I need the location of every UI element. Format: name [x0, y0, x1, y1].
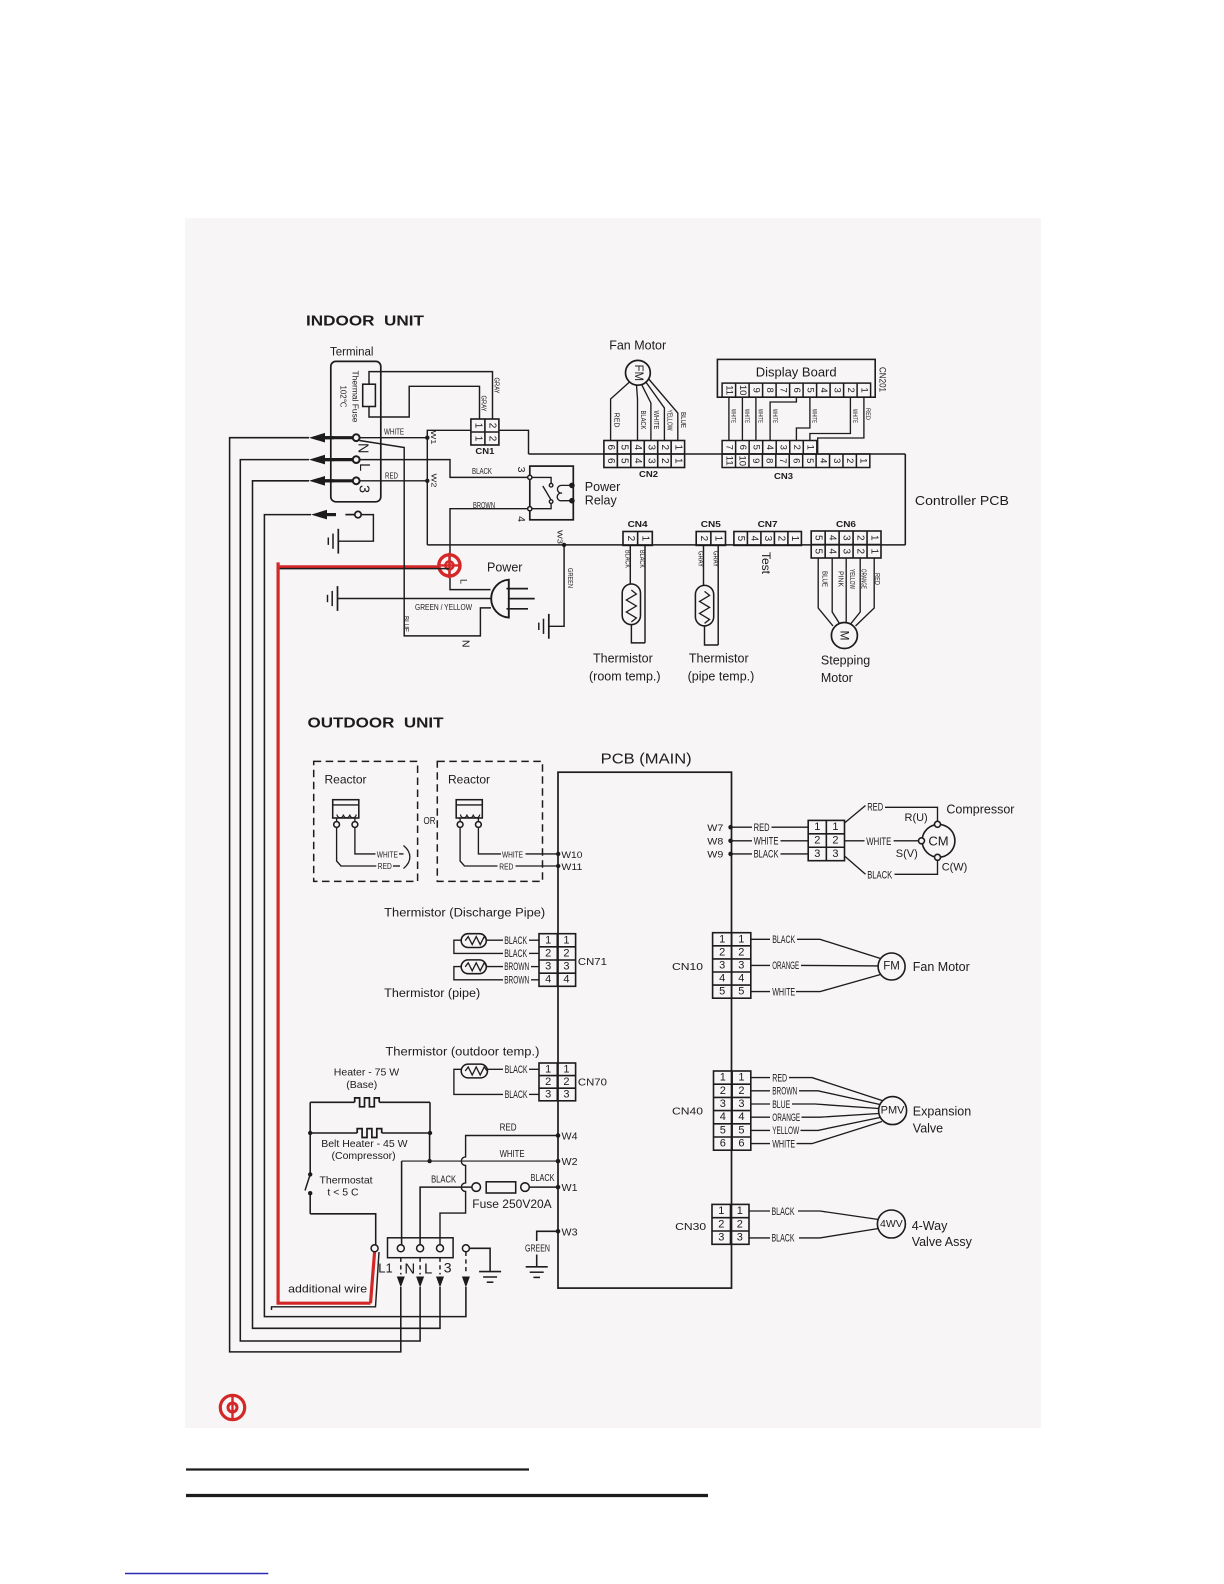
main bus (upper): [529, 453, 906, 455]
svg-text:2: 2: [855, 548, 866, 554]
arrow down (3 lead): [436, 1277, 444, 1288]
svg-text:additional wire: additional wire: [288, 1284, 367, 1296]
wire BLACK TH5 return to CN70-3: [454, 1069, 503, 1094]
svg-text:W10: W10: [561, 850, 582, 861]
svg-text:GREEN / YELLOW: GREEN / YELLOW: [415, 603, 472, 612]
svg-text:1: 1: [737, 1205, 743, 1217]
wire BLUE CN40-3 to expansion valve: [751, 1103, 770, 1105]
svg-text:CN5: CN5: [701, 520, 722, 529]
red additional wire (indoor to outdoor L1): [278, 562, 370, 1303]
thermistor TH1 (room temp.): [622, 584, 640, 625]
svg-text:2: 2: [791, 445, 802, 450]
svg-text:5: 5: [804, 458, 815, 463]
svg-text:4: 4: [738, 1111, 744, 1123]
svg-text:WHITE: WHITE: [771, 409, 777, 423]
wire BLACK outdoor terminal L to fuse: [420, 1187, 472, 1245]
wire display 11 to CN3-7: [728, 397, 730, 440]
svg-text:BLACK: BLACK: [754, 849, 779, 861]
heater left wire: [309, 1102, 311, 1174]
svg-text:WHITE: WHITE: [730, 409, 736, 423]
svg-text:2: 2: [659, 458, 670, 464]
svg-text:WHITE: WHITE: [757, 409, 763, 423]
svg-text:4: 4: [632, 458, 643, 464]
svg-text:GRAY: GRAY: [480, 396, 489, 412]
plug prong upper: [507, 588, 529, 590]
wire display 9 to CN3-5: [755, 397, 757, 440]
svg-text:2: 2: [776, 536, 787, 542]
svg-text:FM: FM: [883, 961, 900, 973]
svg-text:Thermostat: Thermostat: [320, 1174, 373, 1186]
svg-text:CN201: CN201: [878, 367, 888, 392]
svg-text:CN40: CN40: [672, 1105, 703, 1117]
svg-text:10: 10: [737, 455, 748, 466]
svg-text:S(V): S(V): [896, 848, 918, 860]
svg-text:Controller PCB: Controller PCB: [915, 493, 1009, 508]
svg-text:Valve Assy: Valve Assy: [912, 1235, 973, 1249]
svg-text:BLUE: BLUE: [772, 1099, 790, 1111]
svg-text:4: 4: [515, 516, 527, 522]
wire WHITE pin N to node W1: [359, 437, 427, 439]
wire gray loop lower (fuse bottom to CN1 pin1): [369, 386, 480, 419]
svg-text:BLACK: BLACK: [504, 935, 527, 947]
svg-text:5: 5: [813, 548, 824, 554]
svg-text:3: 3: [738, 1098, 744, 1110]
svg-text:BLACK: BLACK: [505, 1089, 528, 1101]
svg-text:5: 5: [619, 458, 630, 464]
svg-text:R(U): R(U): [905, 812, 928, 824]
svg-text:N: N: [404, 1260, 415, 1277]
svg-text:3: 3: [841, 535, 852, 541]
svg-text:BLUE: BLUE: [402, 616, 411, 632]
svg-text:L: L: [424, 1260, 432, 1277]
arrow down (N lead): [397, 1277, 405, 1288]
svg-text:GREEN: GREEN: [525, 1243, 550, 1254]
interconnect wire ground (indoor to outdoor): [264, 515, 466, 1317]
svg-text:BLACK: BLACK: [772, 1206, 795, 1218]
svg-text:CN71: CN71: [578, 956, 607, 968]
svg-text:Thermistor (Discharge Pipe): Thermistor (Discharge Pipe): [384, 908, 545, 920]
svg-text:ORANGE: ORANGE: [859, 569, 866, 589]
svg-text:11: 11: [723, 385, 734, 395]
svg-text:2: 2: [659, 444, 670, 450]
svg-text:3: 3: [563, 1089, 569, 1101]
wire ORANGE CN40-4 to expansion valve: [751, 1116, 770, 1118]
dashed lead below pin 3: [439, 1258, 441, 1275]
svg-text:1: 1: [738, 933, 744, 945]
svg-text:BLACK: BLACK: [772, 934, 795, 946]
svg-text:2: 2: [563, 947, 569, 959]
svg-text:1: 1: [858, 388, 869, 393]
wire PINK CN6-4 to stepping motor: [832, 558, 839, 624]
compressor motor CM: [922, 824, 955, 857]
dashed lead below pin N: [400, 1258, 402, 1275]
svg-text:ORANGE: ORANGE: [772, 960, 799, 972]
svg-text:YELLOW: YELLOW: [772, 1125, 799, 1137]
thermal fuse body: [363, 384, 376, 406]
svg-text:2: 2: [486, 436, 497, 442]
wire WHITE CN40-6 to expansion valve: [751, 1143, 770, 1145]
svg-text:2: 2: [855, 535, 866, 541]
svg-text:BLACK: BLACK: [639, 411, 648, 430]
svg-text:GRAY: GRAY: [711, 551, 718, 567]
outdoor terminal pin N: [397, 1245, 404, 1252]
diagram background: [185, 218, 1041, 1428]
svg-text:8: 8: [764, 458, 775, 463]
svg-text:BLUE: BLUE: [679, 412, 688, 428]
svg-text:1: 1: [672, 458, 683, 464]
svg-text:W1: W1: [562, 1183, 578, 1194]
node W4: [556, 1133, 561, 1138]
svg-text:Thermistor: Thermistor: [689, 652, 749, 666]
svg-text:7: 7: [723, 445, 734, 450]
svg-text:5: 5: [750, 445, 761, 450]
svg-text:BLACK: BLACK: [531, 1173, 555, 1184]
svg-text:3: 3: [831, 458, 842, 463]
connector CN3 top row: [722, 441, 817, 455]
svg-text:PMV: PMV: [881, 1105, 906, 1117]
arrow into interconnect wire N: [309, 433, 325, 443]
svg-text:(Base): (Base): [346, 1079, 377, 1091]
wire node W1 up into CN1 pin1: [427, 430, 471, 437]
svg-text:L1: L1: [378, 1260, 392, 1275]
separator line thick: [186, 1494, 708, 1497]
wire CN5-2 to pipe thermistor: [703, 545, 705, 585]
wire RED connector to compressor R(U): [845, 806, 866, 824]
svg-text:4: 4: [632, 444, 643, 450]
wire BLACK TH5 to CN70-1: [488, 1068, 504, 1070]
svg-text:5: 5: [804, 388, 815, 393]
red target mark (power tap): [448, 553, 450, 578]
svg-text:4: 4: [720, 1111, 726, 1123]
svg-text:Heater - 75 W: Heater - 75 W: [334, 1067, 399, 1079]
arrow down (L lead): [416, 1277, 424, 1288]
svg-text:1: 1: [720, 1072, 726, 1084]
svg-text:WHITE: WHITE: [377, 850, 398, 859]
svg-text:4-Way: 4-Way: [912, 1219, 948, 1233]
svg-text:WHITE: WHITE: [851, 409, 857, 423]
svg-text:2: 2: [625, 536, 636, 542]
display board pin row: [722, 383, 871, 397]
terminal pin L (indoor): [324, 458, 353, 461]
wire BLACK connector to compressor C(W): [845, 856, 866, 874]
reactor 1 wire RED: [337, 827, 377, 866]
svg-text:5: 5: [738, 1124, 744, 1136]
svg-text:1: 1: [719, 933, 725, 945]
wire BLACK CN10-1 to fan motor: [751, 938, 770, 940]
wire CN5-1 to pipe thermistor return: [717, 545, 719, 645]
reactor 2 dashed box: [437, 761, 542, 881]
svg-text:Thermistor (outdoor temp.): Thermistor (outdoor temp.): [385, 1047, 539, 1059]
wire gray loop upper (fuse top to CN1 pin2): [369, 372, 493, 419]
svg-text:2: 2: [718, 1218, 724, 1230]
svg-text:2: 2: [720, 1085, 726, 1097]
4-way valve coil 4WV: [877, 1210, 905, 1238]
controller PCB right edge wire: [904, 454, 906, 545]
svg-text:3: 3: [545, 961, 551, 973]
terminal ground pin (indoor): [345, 514, 354, 516]
connector CN10: [713, 933, 751, 999]
svg-text:3: 3: [718, 1232, 724, 1244]
connector CN30: [712, 1204, 749, 1244]
svg-text:Test: Test: [759, 552, 773, 575]
svg-text:1: 1: [789, 536, 800, 542]
outdoor terminal pin L: [417, 1245, 424, 1252]
svg-text:11: 11: [723, 456, 734, 466]
outdoor terminal block: [388, 1238, 454, 1258]
wire WHITE CN10-5 to fan motor: [751, 991, 770, 993]
svg-text:L: L: [459, 579, 469, 584]
svg-text:WHITE: WHITE: [743, 409, 749, 423]
svg-text:BROWN: BROWN: [504, 974, 529, 986]
plug prong lower: [507, 608, 529, 610]
svg-text:Expansion: Expansion: [913, 1104, 971, 1118]
svg-text:PINK: PINK: [836, 571, 843, 587]
svg-text:1: 1: [718, 1205, 724, 1217]
svg-text:4: 4: [749, 536, 760, 542]
wire BROWN CN40-2 to expansion valve: [751, 1090, 770, 1092]
display board: [717, 359, 875, 397]
svg-text:RED: RED: [873, 573, 880, 585]
svg-text:Fan Motor: Fan Motor: [913, 960, 970, 974]
main bus (lower): [427, 544, 905, 546]
svg-text:CN6: CN6: [836, 520, 857, 529]
wire BLUE fan motor to CN2-1: [648, 379, 678, 441]
svg-text:Stepping: Stepping: [821, 654, 870, 668]
wire BROWN TH4 return to CN71-4: [454, 967, 503, 980]
wire BLACK CN30-3 to 4-way valve: [749, 1237, 770, 1239]
svg-text:6: 6: [790, 458, 801, 463]
svg-text:1: 1: [639, 536, 650, 542]
node W1: [425, 436, 429, 440]
svg-text:6: 6: [791, 388, 802, 393]
svg-text:Compressor: Compressor: [946, 803, 1014, 817]
reactor 2 component: [456, 800, 482, 818]
arrow into interconnect wire L: [309, 455, 325, 465]
svg-text:YELLOW: YELLOW: [666, 410, 675, 432]
wire ORANGE CN10-3 to fan motor: [751, 964, 770, 966]
svg-text:5: 5: [719, 986, 725, 998]
svg-text:2: 2: [844, 458, 855, 463]
svg-text:W2: W2: [562, 1157, 578, 1168]
svg-text:OUTDOOR UNIT: OUTDOOR UNIT: [308, 715, 444, 732]
svg-text:4: 4: [719, 973, 725, 985]
wire GREEN W3 to ground: [549, 545, 564, 626]
svg-text:M: M: [837, 631, 851, 641]
wire W1-W2-bus vertical: [426, 438, 428, 545]
svg-text:YELLOW: YELLOW: [848, 569, 855, 589]
svg-text:2: 2: [738, 946, 744, 958]
svg-text:(pipe temp.): (pipe temp.): [688, 670, 755, 684]
svg-text:W2: W2: [430, 474, 439, 488]
svg-text:WHITE: WHITE: [772, 1138, 795, 1150]
ground (outdoor terminal earth): [479, 1271, 501, 1273]
wire WHITE connector to compressor S(V): [845, 840, 865, 842]
svg-text:CN2: CN2: [639, 470, 659, 479]
wire BLUE CN6-5 to stepping motor: [818, 558, 833, 626]
svg-text:RED: RED: [499, 863, 513, 872]
wire YELLOW CN40-5 to expansion valve: [751, 1129, 770, 1131]
wire display 2 to CN3-1: [810, 397, 851, 440]
svg-text:3: 3: [645, 458, 656, 464]
wire YELLOW CN6-3 to stepping motor: [845, 558, 847, 622]
svg-text:CN70: CN70: [578, 1076, 607, 1088]
wire RED fan motor to CN2-6: [611, 382, 630, 441]
svg-text:C(W): C(W): [942, 861, 968, 873]
thermistor TH5 (outdoor temp.): [461, 1064, 487, 1078]
svg-text:Fan Motor: Fan Motor: [609, 339, 666, 353]
svg-text:1: 1: [869, 548, 880, 554]
wire ORANGE CN6-2 to stepping motor: [851, 558, 860, 624]
node W3 (outdoor): [556, 1229, 561, 1234]
svg-text:RED: RED: [613, 413, 622, 429]
svg-text:10: 10: [737, 385, 748, 396]
svg-text:WHITE: WHITE: [652, 411, 661, 430]
svg-text:6: 6: [605, 458, 616, 464]
wire terminal ground pin to earth: [338, 515, 373, 542]
expansion valve PMV: [879, 1097, 907, 1125]
connector CN40: [714, 1071, 751, 1150]
svg-text:7: 7: [777, 388, 788, 393]
svg-text:Power: Power: [487, 561, 522, 575]
wire RED W4 to outdoor terminal 3: [440, 1136, 558, 1245]
wire WHITE fan motor to CN2-3: [642, 384, 651, 440]
wire CN4-1 to room thermistor return: [644, 545, 646, 643]
svg-text:GRAY: GRAY: [493, 378, 502, 394]
svg-text:BLACK: BLACK: [505, 1064, 528, 1076]
svg-text:WHITE: WHITE: [772, 986, 795, 998]
svg-text:W3: W3: [555, 530, 564, 544]
connector CN2: [604, 441, 685, 468]
svg-text:4: 4: [738, 973, 744, 985]
connector CN1: [471, 419, 499, 445]
svg-text:RED: RED: [772, 1072, 787, 1084]
outdoor ground pin: [462, 1245, 469, 1252]
dashed lead below pin L: [419, 1258, 421, 1275]
svg-text:1: 1: [814, 821, 820, 833]
svg-text:Fuse 250V20A: Fuse 250V20A: [472, 1197, 551, 1211]
svg-text:BROWN: BROWN: [473, 501, 495, 510]
svg-text:(Compressor): (Compressor): [332, 1150, 396, 1162]
svg-text:Reactor: Reactor: [448, 773, 490, 787]
svg-text:W8: W8: [707, 837, 723, 848]
terminal pin 3 (indoor): [324, 479, 353, 482]
svg-text:3: 3: [762, 536, 773, 542]
node W3: [562, 543, 566, 547]
wire GREEN W3 to outdoor ground: [537, 1231, 558, 1241]
svg-text:BLUE: BLUE: [821, 571, 828, 587]
svg-text:W3: W3: [562, 1227, 578, 1238]
svg-text:CN30: CN30: [675, 1221, 706, 1233]
interconnect wire L (indoor to outdoor): [240, 460, 420, 1341]
fuse F2 250V20A: [472, 1183, 481, 1192]
svg-text:W4: W4: [562, 1132, 578, 1143]
svg-text:3: 3: [545, 1089, 551, 1101]
svg-text:RED: RED: [385, 471, 398, 480]
outdoor terminal pin 3: [437, 1245, 444, 1252]
svg-text:6: 6: [720, 1138, 726, 1150]
svg-text:RED: RED: [754, 822, 770, 834]
black wire under red tap (top): [279, 568, 449, 570]
svg-text:WHITE: WHITE: [500, 1149, 525, 1160]
svg-text:5: 5: [813, 535, 824, 541]
reactor 2 wire WHITE to W10: [478, 827, 501, 854]
reactor 1 (optional) dashed box: [314, 761, 418, 881]
svg-text:4WV: 4WV: [880, 1218, 903, 1230]
thermistor TH4 (pipe): [461, 960, 486, 974]
svg-text:BLACK: BLACK: [867, 869, 892, 881]
svg-text:BLACK: BLACK: [638, 550, 645, 568]
svg-text:BLACK: BLACK: [504, 948, 527, 960]
svg-text:W1: W1: [429, 431, 438, 445]
svg-text:7: 7: [777, 458, 788, 463]
red tap wire (indoor power): [278, 565, 437, 568]
svg-text:t < 5 C: t < 5 C: [327, 1187, 359, 1199]
svg-text:1: 1: [563, 1063, 569, 1075]
wire WHITE W2 to outdoor terminal N: [402, 1160, 558, 1162]
svg-text:3: 3: [444, 1259, 452, 1275]
svg-text:CN10: CN10: [672, 961, 703, 973]
node W2: [425, 479, 429, 483]
outdoor terminal pin L1: [371, 1245, 378, 1252]
wire display 5 to CN3-2: [796, 397, 810, 440]
svg-text:6: 6: [738, 1138, 744, 1150]
svg-text:Thermal Fuse: Thermal Fuse: [351, 371, 361, 423]
svg-text:BLACK: BLACK: [624, 550, 631, 568]
wire display 6 to CN3-4: [770, 397, 796, 440]
svg-text:2: 2: [563, 1076, 569, 1088]
wire CN4-2 to room thermistor: [629, 545, 631, 584]
connector CN3 bottom row: [722, 454, 870, 468]
svg-text:WHITE: WHITE: [866, 836, 891, 848]
separator line thin: [186, 1468, 529, 1470]
svg-text:Reactor: Reactor: [325, 773, 367, 787]
svg-text:9: 9: [750, 458, 761, 463]
compressor pin S(V): [919, 838, 925, 844]
svg-text:3: 3: [841, 548, 852, 554]
wire BROWN TH4 to CN71-3: [486, 966, 503, 968]
wire thermostat to outdoor L1: [310, 1214, 376, 1245]
svg-text:2: 2: [814, 835, 820, 847]
svg-text:BROWN: BROWN: [772, 1086, 797, 1098]
svg-text:3: 3: [563, 961, 569, 973]
heater right wire: [429, 1102, 431, 1133]
svg-text:3: 3: [777, 445, 788, 450]
svg-text:Valve: Valve: [913, 1122, 943, 1136]
power relay RY1: [530, 466, 574, 520]
svg-text:Relay: Relay: [585, 493, 618, 507]
connector CN71: [539, 934, 576, 987]
svg-text:1: 1: [472, 436, 483, 442]
svg-text:(room temp.): (room temp.): [589, 670, 661, 684]
wire BLUE plug N side: [360, 441, 492, 636]
interconnect wire 3 (indoor to outdoor): [253, 481, 441, 1329]
wire RED CN40-1 to expansion valve: [751, 1077, 770, 1079]
reactor 1 component: [333, 800, 359, 818]
svg-text:1: 1: [545, 1063, 551, 1075]
ground (indoor green): [548, 614, 550, 639]
arrow into interconnect wire ground: [311, 510, 327, 520]
link underline (blue): [125, 1573, 268, 1575]
svg-text:WHITE: WHITE: [811, 409, 817, 423]
svg-text:N: N: [459, 640, 471, 648]
svg-text:RED: RED: [864, 408, 871, 420]
svg-text:4: 4: [563, 974, 569, 986]
svg-text:CN3: CN3: [774, 472, 794, 481]
svg-text:GRAY: GRAY: [697, 551, 704, 567]
power plug: [491, 580, 509, 618]
svg-text:4: 4: [827, 535, 838, 541]
reactor 1 break mark: [404, 846, 410, 869]
